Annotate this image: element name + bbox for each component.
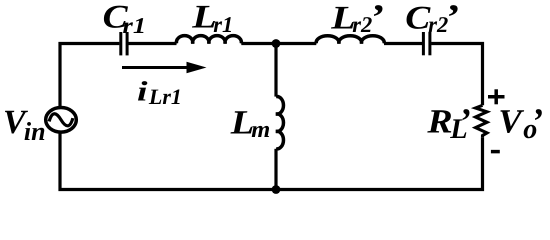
svg-text:’: ’ bbox=[459, 101, 471, 141]
svg-text:’: ’ bbox=[369, 0, 384, 37]
svg-text:Lr1: Lr1 bbox=[148, 84, 182, 109]
svg-text:r1: r1 bbox=[213, 12, 233, 37]
svg-text:V: V bbox=[498, 104, 524, 141]
svg-text:R: R bbox=[426, 104, 452, 141]
svg-text:’: ’ bbox=[444, 0, 459, 37]
svg-text:m: m bbox=[251, 117, 270, 143]
svg-text:’: ’ bbox=[531, 101, 543, 141]
svg-text:r1: r1 bbox=[123, 13, 147, 38]
svg-text:i: i bbox=[137, 77, 148, 108]
svg-text:in: in bbox=[24, 117, 46, 146]
